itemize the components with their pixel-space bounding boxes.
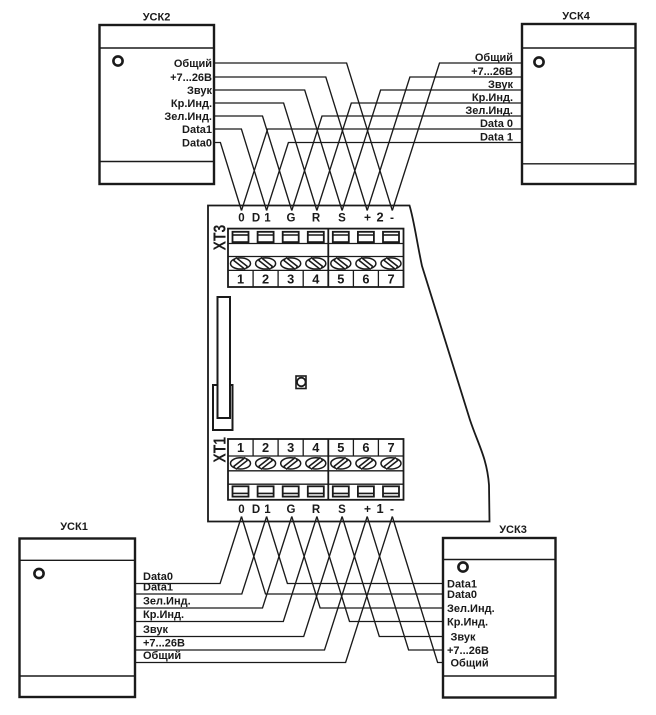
svg-text:1: 1 bbox=[237, 440, 244, 455]
svg-text:7: 7 bbox=[387, 271, 394, 286]
XT3 wire-entry rectangles (divider near top) bbox=[233, 232, 400, 242]
svg-text:Data0: Data0 bbox=[447, 589, 477, 601]
svg-text:1: 1 bbox=[264, 504, 271, 516]
svg-text:Зел.Инд.: Зел.Инд. bbox=[164, 111, 212, 123]
svg-text:Звук: Звук bbox=[187, 85, 212, 97]
wire УСК2 Звук to terminal 5 bbox=[213, 90, 342, 211]
svg-text:3: 3 bbox=[287, 271, 294, 286]
svg-text:D: D bbox=[252, 213, 260, 225]
svg-text:+7...26В: +7...26В bbox=[447, 645, 489, 657]
svg-text:4: 4 bbox=[312, 271, 320, 286]
wire УСК3 Звук to terminal 5 bbox=[342, 517, 444, 637]
connector pin header (tall narrow rectangle) bbox=[218, 297, 231, 418]
svg-text:Зел.Инд.: Зел.Инд. bbox=[143, 596, 191, 608]
wire УСК3 Data0 to terminal 1 bbox=[242, 517, 445, 595]
svg-text:УСК3: УСК3 bbox=[499, 524, 527, 536]
svg-text:1: 1 bbox=[376, 501, 383, 516]
wire УСК2 Кр.Инд. to terminal 4 bbox=[213, 103, 317, 211]
wire УСК4 Data 0 to terminal 1 bbox=[242, 129, 522, 211]
svg-text:-: - bbox=[390, 502, 394, 516]
terminal block XT1 outline bbox=[228, 439, 404, 500]
svg-text:Кр.Инд.: Кр.Инд. bbox=[143, 609, 184, 621]
svg-text:6: 6 bbox=[362, 440, 369, 455]
wire УСК1 +7...26В to terminal 6 bbox=[134, 517, 367, 651]
svg-text:Data 0: Data 0 bbox=[480, 118, 513, 130]
svg-text:Data 1: Data 1 bbox=[480, 132, 513, 144]
pin labels of УСК3 (left-aligned inside box) bbox=[447, 579, 495, 670]
svg-text:D: D bbox=[252, 504, 260, 516]
svg-text:Зел.Инд.: Зел.Инд. bbox=[447, 603, 495, 615]
wire УСК2 Общий to terminal 7 bbox=[213, 63, 392, 211]
terminal block XT3 outline bbox=[228, 229, 404, 287]
svg-text:5: 5 bbox=[337, 271, 344, 286]
svg-text:7: 7 bbox=[387, 440, 394, 455]
indicator LED of УСК1 bbox=[34, 569, 43, 578]
svg-text:4: 4 bbox=[312, 440, 320, 455]
wire УСК3 Кр.Инд. to terminal 4 bbox=[317, 517, 444, 622]
XT1 wire-entry rectangles (divider near bottom) bbox=[233, 486, 400, 496]
wire УСК2 Зел.Инд. to terminal 3 bbox=[213, 116, 292, 211]
svg-text:S: S bbox=[338, 213, 346, 225]
svg-text:2: 2 bbox=[376, 210, 383, 225]
svg-text:Кр.Инд.: Кр.Инд. bbox=[472, 92, 513, 104]
wire УСК4 +7...26В to terminal 6 bbox=[367, 77, 521, 211]
svg-text:2: 2 bbox=[262, 440, 269, 455]
svg-text:УСК1: УСК1 bbox=[60, 521, 88, 533]
svg-text:Кр.Инд.: Кр.Инд. bbox=[171, 98, 212, 110]
svg-text:+: + bbox=[364, 502, 371, 516]
wire УСК2 Data1 to terminal 2 bbox=[213, 129, 267, 211]
wire УСК4 Общий to terminal 7 bbox=[392, 63, 521, 211]
wire УСК2 Data0 to terminal 1 bbox=[213, 143, 242, 211]
wire УСК4 Звук to terminal 5 bbox=[342, 90, 521, 211]
svg-text:УСК4: УСК4 bbox=[562, 11, 591, 23]
svg-text:G: G bbox=[287, 213, 296, 225]
small component (button/sensor) at board centre bbox=[296, 376, 306, 389]
svg-text:R: R bbox=[312, 504, 321, 516]
wire УСК2 +7...26В to terminal 6 bbox=[213, 77, 367, 211]
XT1 terminal numbers 1-7 bbox=[237, 439, 395, 456]
pin labels of УСК4 (right-aligned, left of box, above wires) bbox=[465, 52, 513, 144]
svg-text:3: 3 bbox=[287, 440, 294, 455]
device box УСК4 bbox=[522, 24, 636, 184]
svg-text:5: 5 bbox=[337, 440, 344, 455]
svg-text:Зел.Инд.: Зел.Инд. bbox=[465, 105, 513, 117]
connector socket (wide base rectangle) bbox=[213, 385, 233, 430]
terminal designations below XT1: 0 D 1 G R S + 1 - bbox=[238, 501, 394, 516]
XT3 screw terminals bbox=[231, 258, 402, 269]
svg-text:+7...26В: +7...26В bbox=[170, 72, 212, 84]
central device body outline bbox=[208, 206, 490, 522]
svg-text:XT1: XT1 bbox=[211, 437, 230, 463]
svg-text:1: 1 bbox=[264, 213, 271, 225]
svg-text:Звук: Звук bbox=[488, 79, 513, 91]
wire УСК1 Звук to terminal 5 bbox=[134, 517, 342, 637]
svg-text:+: + bbox=[364, 211, 371, 225]
svg-text:XT3: XT3 bbox=[211, 224, 230, 250]
svg-text:-: - bbox=[390, 211, 394, 225]
indicator LED of УСК3 bbox=[458, 562, 467, 571]
XT3 terminal numbers 1-7 bbox=[237, 270, 395, 287]
wire УСК3 Общий to terminal 7 bbox=[392, 517, 444, 663]
wire УСК4 Зел.Инд. to terminal 3 bbox=[292, 116, 521, 211]
pin labels of УСК2 (right-aligned inside box) bbox=[164, 58, 212, 150]
svg-text:Кр.Инд.: Кр.Инд. bbox=[447, 617, 488, 629]
svg-text:R: R bbox=[312, 213, 321, 225]
svg-text:S: S bbox=[338, 504, 346, 516]
wire УСК4 Data 1 to terminal 2 bbox=[267, 143, 521, 211]
wire УСК1 Зел.Инд. to terminal 3 bbox=[134, 517, 292, 609]
svg-text:0: 0 bbox=[238, 213, 244, 225]
svg-text:Data0: Data0 bbox=[182, 138, 212, 150]
svg-text:Data1: Data1 bbox=[182, 124, 212, 136]
terminal designations above XT3: 0 D 1 G R S + 2 - bbox=[238, 210, 394, 225]
wire УСК3 Зел.Инд. to terminal 3 bbox=[292, 517, 444, 609]
wire УСК3 Data1 to terminal 2 bbox=[267, 517, 444, 584]
device box УСК3 bbox=[443, 538, 556, 698]
wire УСК1 Data0 to terminal 1 bbox=[134, 517, 242, 584]
svg-text:1: 1 bbox=[237, 271, 244, 286]
svg-text:0: 0 bbox=[238, 504, 244, 516]
svg-text:2: 2 bbox=[262, 271, 269, 286]
svg-text:Общий: Общий bbox=[174, 58, 212, 70]
svg-text:Звук: Звук bbox=[143, 624, 168, 636]
svg-text:+7...26В: +7...26В bbox=[143, 638, 185, 650]
wire УСК1 Общий to terminal 7 bbox=[134, 517, 392, 663]
svg-text:Общий: Общий bbox=[475, 52, 513, 64]
pin labels of УСК1 (left-aligned, right of box, above wires) bbox=[143, 571, 191, 662]
wire УСК3 +7...26В to terminal 6 bbox=[367, 517, 444, 651]
indicator LED of УСК4 bbox=[534, 57, 543, 66]
svg-text:+7...26В: +7...26В bbox=[471, 66, 513, 78]
device box УСК1 bbox=[20, 539, 136, 698]
XT1 screw terminals bbox=[231, 458, 402, 469]
svg-text:Общий: Общий bbox=[451, 658, 489, 670]
svg-text:G: G bbox=[287, 504, 296, 516]
wire УСК4 Кр.Инд. to terminal 4 bbox=[317, 103, 521, 211]
wire УСК1 Data1 to terminal 2 bbox=[134, 517, 267, 595]
svg-text:6: 6 bbox=[362, 271, 369, 286]
wire УСК1 Кр.Инд. to terminal 4 bbox=[134, 517, 317, 622]
device box УСК2 bbox=[100, 25, 215, 184]
svg-text:Звук: Звук bbox=[451, 632, 476, 644]
svg-text:УСК2: УСК2 bbox=[143, 12, 171, 24]
indicator LED of УСК2 bbox=[113, 56, 122, 65]
svg-text:Общий: Общий bbox=[143, 650, 181, 662]
